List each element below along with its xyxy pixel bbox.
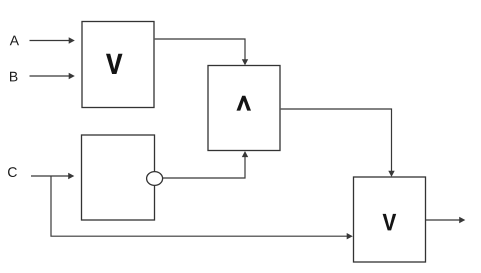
- OR gate U1 box: [82, 22, 154, 108]
- wire U1 output to U2 top input: [155, 39, 249, 65]
- OR symbol in U1: [106, 54, 123, 74]
- wire B input arrow: [30, 73, 75, 79]
- wire A input arrow: [30, 37, 75, 43]
- wire U2 output to U4 top input: [281, 109, 395, 177]
- AND symbol in U2: [237, 96, 252, 111]
- AND gate U2 box: [208, 66, 280, 151]
- OR gate U4 box: [354, 177, 426, 262]
- wire C input arrow: [31, 173, 74, 179]
- node C label: [8, 167, 17, 177]
- NOT gate U3 box: [82, 135, 155, 220]
- wire C branch to U4 left input: [51, 176, 353, 239]
- wire U4 output arrow: [426, 217, 465, 223]
- node A label: [10, 36, 19, 46]
- OR symbol in U4: [383, 214, 397, 231]
- NOT bubble: [147, 172, 163, 186]
- wire U3 bubble output to U2 bottom input: [163, 151, 249, 178]
- node B label: [10, 72, 17, 82]
